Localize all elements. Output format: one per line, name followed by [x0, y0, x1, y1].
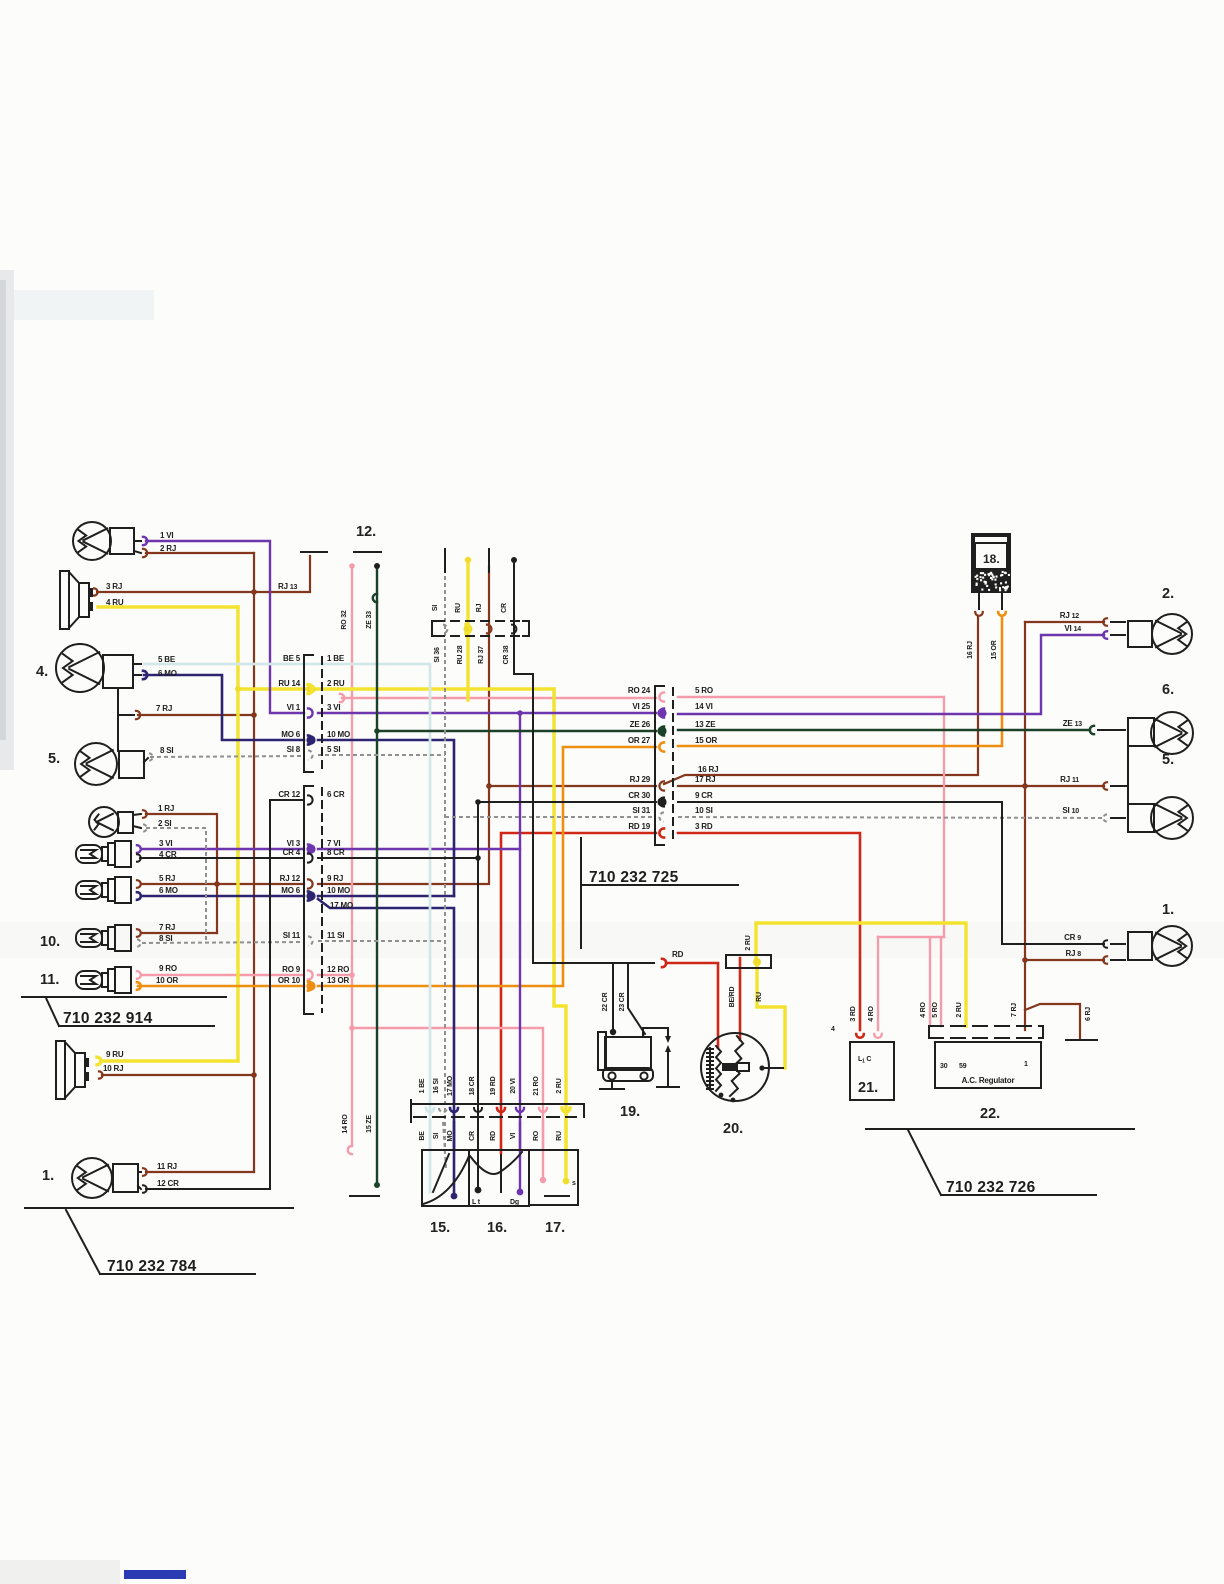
wire 4 CR bulb — [140, 857, 304, 859]
svg-text:CR 9: CR 9 — [1064, 933, 1081, 942]
svg-text:CR: CR — [469, 1131, 476, 1141]
svg-text:VI 3: VI 3 — [287, 839, 301, 848]
svg-text:2 RU: 2 RU — [745, 935, 752, 950]
connector block 1 bracket — [304, 655, 313, 772]
wire RO 32 vertical — [351, 566, 353, 1146]
wire 10 RJ horn2 — [102, 1074, 254, 1076]
bulb (3 VI / 4 CR) — [76, 845, 102, 863]
lamp6-lamp5R link — [1127, 746, 1129, 806]
stub cap RJ37 — [488, 549, 490, 572]
switch box 16 — [469, 1150, 529, 1206]
wire 6 MO bulb — [142, 895, 304, 898]
wire RJ right vertical — [1024, 622, 1026, 1030]
svg-text:3 RD: 3 RD — [695, 822, 713, 831]
wire 9 RU horn2 — [102, 1059, 238, 1062]
svg-text:16 SI: 16 SI — [433, 1078, 440, 1094]
wire 2 SI — [146, 828, 206, 943]
svg-text:15 OR: 15 OR — [695, 736, 718, 745]
svg-text:7 RJ: 7 RJ — [1011, 1003, 1018, 1017]
svg-text:12 RO: 12 RO — [327, 965, 349, 974]
svg-text:OR 27: OR 27 — [628, 736, 651, 745]
connector1 pin 8 CR — [308, 853, 313, 862]
wire RO bus to reg/box21 — [878, 936, 944, 938]
svg-text:2 RJ: 2 RJ — [160, 544, 176, 553]
wire RJ 29 row — [489, 785, 656, 787]
wire RU 28 stub — [466, 560, 469, 700]
connector1 pin 10 MO — [306, 891, 315, 900]
svg-text:18 CR: 18 CR — [469, 1076, 476, 1095]
svg-text:4 RU: 4 RU — [106, 598, 124, 607]
wire 9 RO bulb11 — [142, 974, 304, 976]
svg-text:L t: L t — [472, 1199, 481, 1206]
svg-text:BE/RD: BE/RD — [729, 986, 736, 1007]
svg-text:13 OR: 13 OR — [327, 976, 350, 985]
wire CR 12 / 12 CR trunk — [146, 800, 304, 1189]
svg-text:7 VI: 7 VI — [327, 839, 340, 848]
svg-text:RJ 8: RJ 8 — [1065, 949, 1081, 958]
svg-text:5 SI: 5 SI — [327, 745, 340, 754]
wire 5 RO row right — [678, 697, 944, 937]
svg-text:6.: 6. — [1162, 682, 1174, 698]
flywheel magneto 20 — [701, 1033, 769, 1101]
svg-text:22 CR: 22 CR — [602, 992, 609, 1011]
wire 6 RJ to ground — [1025, 1004, 1080, 1038]
svg-text:SI: SI — [433, 1133, 440, 1139]
svg-text:1 BE: 1 BE — [419, 1078, 426, 1093]
lamp (top, 1 VI / 2 RJ) — [73, 522, 111, 560]
wire 5 SI row — [318, 754, 445, 756]
wire 9 RJ / RJ 37 — [318, 566, 489, 884]
junction 3RJ/trunk — [251, 589, 257, 595]
lamp4-lamp5 link + 7 RJ tap — [117, 688, 119, 751]
svg-text:11.: 11. — [40, 972, 59, 988]
wire 4 RU horn1 — [98, 605, 238, 608]
wire 17 RJ row — [678, 785, 1025, 787]
wire MO inside switch — [453, 1122, 456, 1194]
svg-text:6 MO: 6 MO — [158, 669, 177, 678]
svg-text:17.: 17. — [545, 1220, 565, 1236]
svg-text:RU: RU — [756, 992, 763, 1002]
wire 10 MO row2 — [318, 895, 454, 898]
svg-text:21.: 21. — [858, 1080, 878, 1096]
svg-text:RU: RU — [455, 603, 462, 613]
svg-text:10 MO: 10 MO — [327, 886, 350, 895]
svg-text:20.: 20. — [723, 1121, 743, 1137]
svg-text:9 RJ: 9 RJ — [327, 874, 343, 883]
wire 15 OR row CDI — [678, 616, 1002, 746]
ground bar ZE — [350, 1195, 379, 1197]
wire 5 RJ — [142, 883, 304, 885]
wire RJ trunk vertical — [253, 553, 255, 1172]
svg-text:4.: 4. — [36, 664, 48, 680]
svg-text:SI 11: SI 11 — [283, 931, 301, 940]
condenser box 21 — [850, 1042, 894, 1100]
part number 710 232 725 — [580, 838, 582, 948]
wire ZE 26 row — [377, 730, 656, 732]
connector2 pin 10 SI — [659, 812, 664, 821]
svg-text:14 VI: 14 VI — [695, 702, 713, 711]
wire SI inside switch — [443, 1122, 446, 1168]
connector1 pin 12 RO — [308, 970, 313, 979]
svg-text:15 OR: 15 OR — [991, 640, 998, 659]
wire 1 RJ — [146, 814, 217, 933]
terminal RD — [662, 959, 666, 967]
wire 22 CR bus — [533, 962, 654, 964]
wire RJ 8 lamp1R — [1025, 959, 1104, 961]
svg-text:MO 6: MO 6 — [281, 886, 301, 895]
svg-text:2 RU: 2 RU — [556, 1078, 563, 1093]
svg-text:9 RO: 9 RO — [159, 964, 177, 973]
svg-text:710 232 725: 710 232 725 — [589, 869, 679, 886]
terminal ZE13 — [1090, 726, 1094, 734]
wire RO 24 row — [342, 697, 656, 699]
svg-text:21 RO: 21 RO — [533, 1076, 540, 1096]
svg-text:CR: CR — [501, 603, 508, 613]
wire RO to switch 17 — [352, 1028, 543, 1150]
switch box 15 — [422, 1150, 469, 1206]
svg-text:10 MO: 10 MO — [327, 730, 350, 739]
svg-text:RD: RD — [672, 950, 684, 959]
wire 8 SI bulb10 row — [142, 942, 304, 943]
coil HT lead + spark plug — [643, 1028, 668, 1037]
svg-text:RU 28: RU 28 — [457, 645, 464, 664]
svg-text:15.: 15. — [430, 1220, 450, 1236]
svg-text:RJ: RJ — [476, 603, 483, 612]
connector1 pin 3 VI — [308, 708, 313, 717]
ground bar 12 — [354, 551, 381, 553]
svg-text:RJ 29: RJ 29 — [630, 775, 651, 784]
svg-text:9 RU: 9 RU — [106, 1050, 124, 1059]
terminal RO32 bottom — [348, 1146, 352, 1154]
svg-text:8 SI: 8 SI — [160, 746, 173, 755]
svg-text:9 CR: 9 CR — [695, 791, 713, 800]
svg-text:10 RJ: 10 RJ — [103, 1064, 123, 1073]
svg-text:BE 5: BE 5 — [283, 654, 301, 663]
wire RD 19 row + vertical to switch 16 — [501, 833, 656, 1153]
wire CR to switch 16 — [477, 802, 479, 1150]
svg-text:5 BE: 5 BE — [158, 655, 176, 664]
svg-text:18.: 18. — [983, 552, 1000, 566]
svg-text:VI 25: VI 25 — [632, 702, 650, 711]
connector 1 right rail dashed — [321, 657, 323, 1012]
wire RU left vertical — [236, 607, 239, 1061]
stub pin SI 36 — [443, 625, 447, 634]
connector1 pin 2 RU — [306, 684, 315, 693]
svg-text:2.: 2. — [1162, 586, 1174, 602]
svg-text:8 CR: 8 CR — [327, 848, 345, 857]
wire 8 CR row — [318, 857, 478, 859]
svg-text:15 ZE: 15 ZE — [366, 1115, 373, 1133]
wire RD jumper coil-flywheel — [666, 963, 718, 1048]
ignition coil 19 — [598, 1032, 606, 1070]
connector2 pin 3 RD — [659, 828, 664, 837]
svg-text:6 CR: 6 CR — [327, 790, 345, 799]
wire BE inside switch — [429, 1122, 432, 1192]
svg-text:VI 14: VI 14 — [1064, 624, 1081, 633]
wire RU flywheel-regulator — [756, 923, 966, 1026]
wire 2 RJ lamp to trunk — [146, 552, 254, 554]
svg-text:4 CR: 4 CR — [159, 850, 177, 859]
svg-text:RJ 11: RJ 11 — [1060, 775, 1079, 784]
connector2 pin 13 ZE — [657, 726, 666, 735]
wire 7 RJ bulb10 — [142, 932, 217, 934]
svg-text:10.: 10. — [40, 934, 60, 950]
svg-text:ZE 13: ZE 13 — [1063, 719, 1083, 728]
svg-text:13 ZE: 13 ZE — [695, 720, 716, 729]
connector2 pin 17 RJ — [659, 781, 664, 790]
A.C. regulator 22 — [935, 1042, 1041, 1088]
wire ZE 33 vertical — [376, 566, 378, 1183]
connector1 pin 5 SI — [308, 750, 313, 759]
part number 710 232 914 — [22, 996, 226, 998]
svg-text:59: 59 — [959, 1063, 967, 1070]
wire 10 MO row1 — [318, 740, 454, 896]
terminal RO24 left — [340, 694, 344, 702]
svg-text:710 232 914: 710 232 914 — [63, 1010, 153, 1027]
stub connector bracket — [431, 621, 433, 636]
wire VI inside switch — [519, 1122, 521, 1190]
horn (3 RJ / 4 RU) — [60, 571, 69, 629]
wire 7 VI row — [318, 848, 520, 850]
wire CR 30 row — [478, 801, 656, 803]
svg-text:3 VI: 3 VI — [327, 703, 340, 712]
svg-text:6 MO: 6 MO — [159, 886, 178, 895]
wire 8 SI lamp5 — [150, 756, 304, 757]
horn 2 (9 RU / 10 RJ) — [56, 1041, 65, 1099]
blue scan mark bottom left — [124, 1570, 186, 1579]
svg-text:7 RJ: 7 RJ — [159, 923, 175, 932]
svg-text:RJ 12: RJ 12 — [1060, 611, 1080, 620]
stub pin RJ 37 — [487, 625, 491, 634]
wire 10 SI lamp5R — [678, 817, 1104, 818]
svg-text:MO 6: MO 6 — [281, 730, 301, 739]
svg-text:1: 1 — [1024, 1061, 1028, 1068]
wire SI 31 row — [445, 816, 656, 818]
svg-text:16 RJ: 16 RJ — [698, 765, 718, 774]
coil ground — [611, 1080, 613, 1088]
wire 17 MO row — [318, 899, 454, 1150]
connector2 pin 5 RO — [659, 692, 664, 701]
svg-text:17 RJ: 17 RJ — [695, 775, 715, 784]
wire 13 ZE lamp6 — [678, 729, 1090, 731]
svg-text:SI 10: SI 10 — [1062, 806, 1079, 815]
wire 13 OR row to OR27 — [318, 747, 656, 986]
bulb (5 RJ / 6 MO) — [76, 881, 102, 899]
svg-text:VI 1: VI 1 — [287, 703, 301, 712]
wire 16 RJ CDI — [664, 616, 978, 784]
svg-text:5 RO: 5 RO — [695, 686, 713, 695]
svg-text:Dg: Dg — [510, 1199, 519, 1206]
svg-text:4: 4 — [831, 1026, 835, 1033]
svg-text:2 RU: 2 RU — [956, 1002, 963, 1017]
svg-text:2 RU: 2 RU — [327, 679, 345, 688]
wire 3 RD row to box21 — [678, 833, 860, 1030]
svg-text:11 RJ: 11 RJ — [157, 1162, 177, 1171]
svg-text:19.: 19. — [620, 1104, 640, 1120]
svg-text:RD: RD — [490, 1131, 497, 1141]
wire 12 RO row — [318, 974, 349, 976]
svg-text:RO: RO — [533, 1130, 540, 1141]
svg-text:5.: 5. — [1162, 752, 1174, 768]
connector2 pin 15 OR — [659, 742, 664, 751]
svg-text:SI 36: SI 36 — [434, 647, 441, 663]
wire RU to switch 17 — [554, 689, 566, 1150]
connector1 pin 9 RJ — [308, 879, 313, 888]
CDI leads — [978, 592, 980, 609]
svg-text:3 VI: 3 VI — [159, 839, 172, 848]
svg-text:7 RJ: 7 RJ — [156, 704, 172, 713]
ground bar RJ13 — [301, 551, 327, 553]
svg-text:14 RO: 14 RO — [342, 1114, 349, 1134]
svg-text:2 SI: 2 SI — [158, 819, 171, 828]
wire RU inside switch — [564, 1122, 567, 1180]
svg-text:19 RD: 19 RD — [490, 1076, 497, 1095]
connector1 pin 10 MO — [306, 735, 315, 744]
connector block 2 bracket — [655, 686, 664, 845]
svg-text:8 SI: 8 SI — [159, 934, 172, 943]
svg-text:1.: 1. — [42, 1168, 54, 1184]
wire 5 BE / 1 BE — [144, 664, 430, 1150]
svg-text:ZE 33: ZE 33 — [366, 611, 373, 629]
wire VI to switch 16 — [519, 713, 521, 1150]
wire 10 OR bulb11 — [138, 985, 304, 988]
svg-text:RO 32: RO 32 — [341, 610, 348, 630]
svg-text:RJ 12: RJ 12 — [280, 874, 301, 883]
svg-text:OR 10: OR 10 — [278, 976, 301, 985]
wire 22 CR drop — [612, 963, 614, 1034]
svg-text:RJ 37: RJ 37 — [478, 646, 485, 664]
svg-text:5 RJ: 5 RJ — [159, 874, 175, 883]
svg-text:710 232 726: 710 232 726 — [946, 1179, 1036, 1196]
part number 710 232 726 — [866, 1128, 1134, 1130]
svg-text:710 232 784: 710 232 784 — [107, 1258, 197, 1275]
svg-text:3 RJ: 3 RJ — [106, 582, 122, 591]
wire 6 MO lamp4 — [144, 675, 304, 740]
wire SI 36 vertical — [444, 562, 446, 1150]
svg-text:A.C. Regulator: A.C. Regulator — [962, 1076, 1015, 1085]
svg-text:6 RJ: 6 RJ — [1085, 1007, 1092, 1021]
wire 3 VI bulb — [142, 848, 304, 850]
connector1 pin 13 OR — [306, 981, 315, 990]
svg-text:12 CR: 12 CR — [157, 1179, 179, 1188]
connector1 pin 6 CR — [308, 795, 313, 804]
svg-text:CR 12: CR 12 — [278, 790, 300, 799]
svg-text:RD 19: RD 19 — [628, 822, 650, 831]
svg-text:4 RO: 4 RO — [920, 1001, 927, 1017]
svg-text:1 BE: 1 BE — [327, 654, 345, 663]
wire 1 VI lamp — [146, 541, 304, 713]
svg-text:RO 24: RO 24 — [628, 686, 651, 695]
svg-text:1 VI: 1 VI — [160, 531, 173, 540]
wire BE/RD flywheel — [739, 958, 742, 1040]
wire CR inside switch — [477, 1122, 479, 1188]
wire RJ 12 lamp2 — [1025, 621, 1104, 623]
svg-text:11 SI: 11 SI — [327, 931, 344, 940]
svg-text:1.: 1. — [1162, 902, 1174, 918]
svg-text:RU 14: RU 14 — [278, 679, 300, 688]
svg-text:RO 9: RO 9 — [282, 965, 301, 974]
wire 14 VI lamp2 — [678, 635, 1104, 714]
stub pin CR 38 — [512, 625, 516, 634]
svg-text:SI 8: SI 8 — [287, 745, 301, 754]
svg-text:3 RD: 3 RD — [850, 1006, 857, 1021]
wire 11 RJ lamp1L — [146, 1171, 254, 1173]
connector2 pin 9 CR — [657, 797, 666, 806]
svg-text:1 RJ: 1 RJ — [158, 804, 174, 813]
terminal ZE33 — [373, 594, 377, 602]
wire CR 38 stub — [514, 560, 533, 963]
svg-text:30: 30 — [940, 1063, 948, 1070]
wire RJ 11 lamp5R — [1025, 785, 1104, 787]
svg-text:ZE 26: ZE 26 — [630, 720, 651, 729]
flywheel terminal block — [726, 955, 771, 968]
svg-text:RU: RU — [556, 1131, 563, 1141]
wire 3 RJ horn to ground — [97, 556, 310, 592]
svg-text:CR 30: CR 30 — [628, 791, 650, 800]
wire 9 CR row — [678, 802, 1104, 944]
svg-text:RJ 13: RJ 13 — [278, 582, 298, 591]
connector1 pin 11 SI — [308, 936, 313, 945]
svg-text:23 CR: 23 CR — [619, 992, 626, 1011]
stub pin RU 28 — [464, 625, 473, 634]
group line 710 232 784 — [25, 1207, 293, 1209]
svg-text:4 RO: 4 RO — [868, 1005, 875, 1021]
svg-text:10 SI: 10 SI — [695, 806, 713, 815]
switch connector rail — [411, 1103, 578, 1105]
svg-text:16 RJ: 16 RJ — [967, 641, 974, 659]
svg-text:5.: 5. — [48, 751, 60, 767]
switch box 17 — [529, 1150, 578, 1205]
svg-text:CR 4: CR 4 — [283, 848, 301, 857]
CDI unit 18 — [972, 534, 1010, 592]
svg-text:16.: 16. — [487, 1220, 507, 1236]
small lamp (1 RJ / 2 SI) — [89, 807, 119, 837]
svg-text:17 MO: 17 MO — [447, 1075, 454, 1096]
svg-text:VI: VI — [510, 1133, 517, 1139]
svg-text:10 OR: 10 OR — [156, 976, 179, 985]
wire 7 RJ lamp4 — [138, 714, 254, 716]
svg-text:5 RO: 5 RO — [932, 1001, 939, 1017]
svg-text:20 VI: 20 VI — [510, 1078, 517, 1094]
connector2 pin 14 VI — [657, 708, 666, 717]
svg-text:MO: MO — [447, 1130, 454, 1142]
wire RO inside switch — [542, 1122, 544, 1178]
wire 3 VI / VI 25 row — [318, 712, 656, 714]
svg-text:22.: 22. — [980, 1106, 1000, 1122]
svg-text:12.: 12. — [356, 524, 376, 540]
svg-text:17 MO: 17 MO — [330, 901, 353, 910]
wire RU 14 / 2 RU row — [238, 687, 554, 690]
wire 23 CR drop — [628, 963, 645, 1034]
wire RU flywheel tap — [757, 966, 785, 1068]
wire 11 SI row — [318, 940, 445, 942]
svg-text:CR 38: CR 38 — [503, 645, 510, 664]
connector1 pin 7 VI — [306, 844, 315, 853]
ground bar 6RJ — [1066, 1039, 1097, 1041]
svg-text:SI 31: SI 31 — [632, 806, 650, 815]
svg-text:SI: SI — [432, 605, 439, 611]
switch rail pins — [426, 1108, 434, 1112]
svg-text:s: s — [572, 1180, 576, 1187]
svg-text:BE: BE — [419, 1131, 426, 1141]
